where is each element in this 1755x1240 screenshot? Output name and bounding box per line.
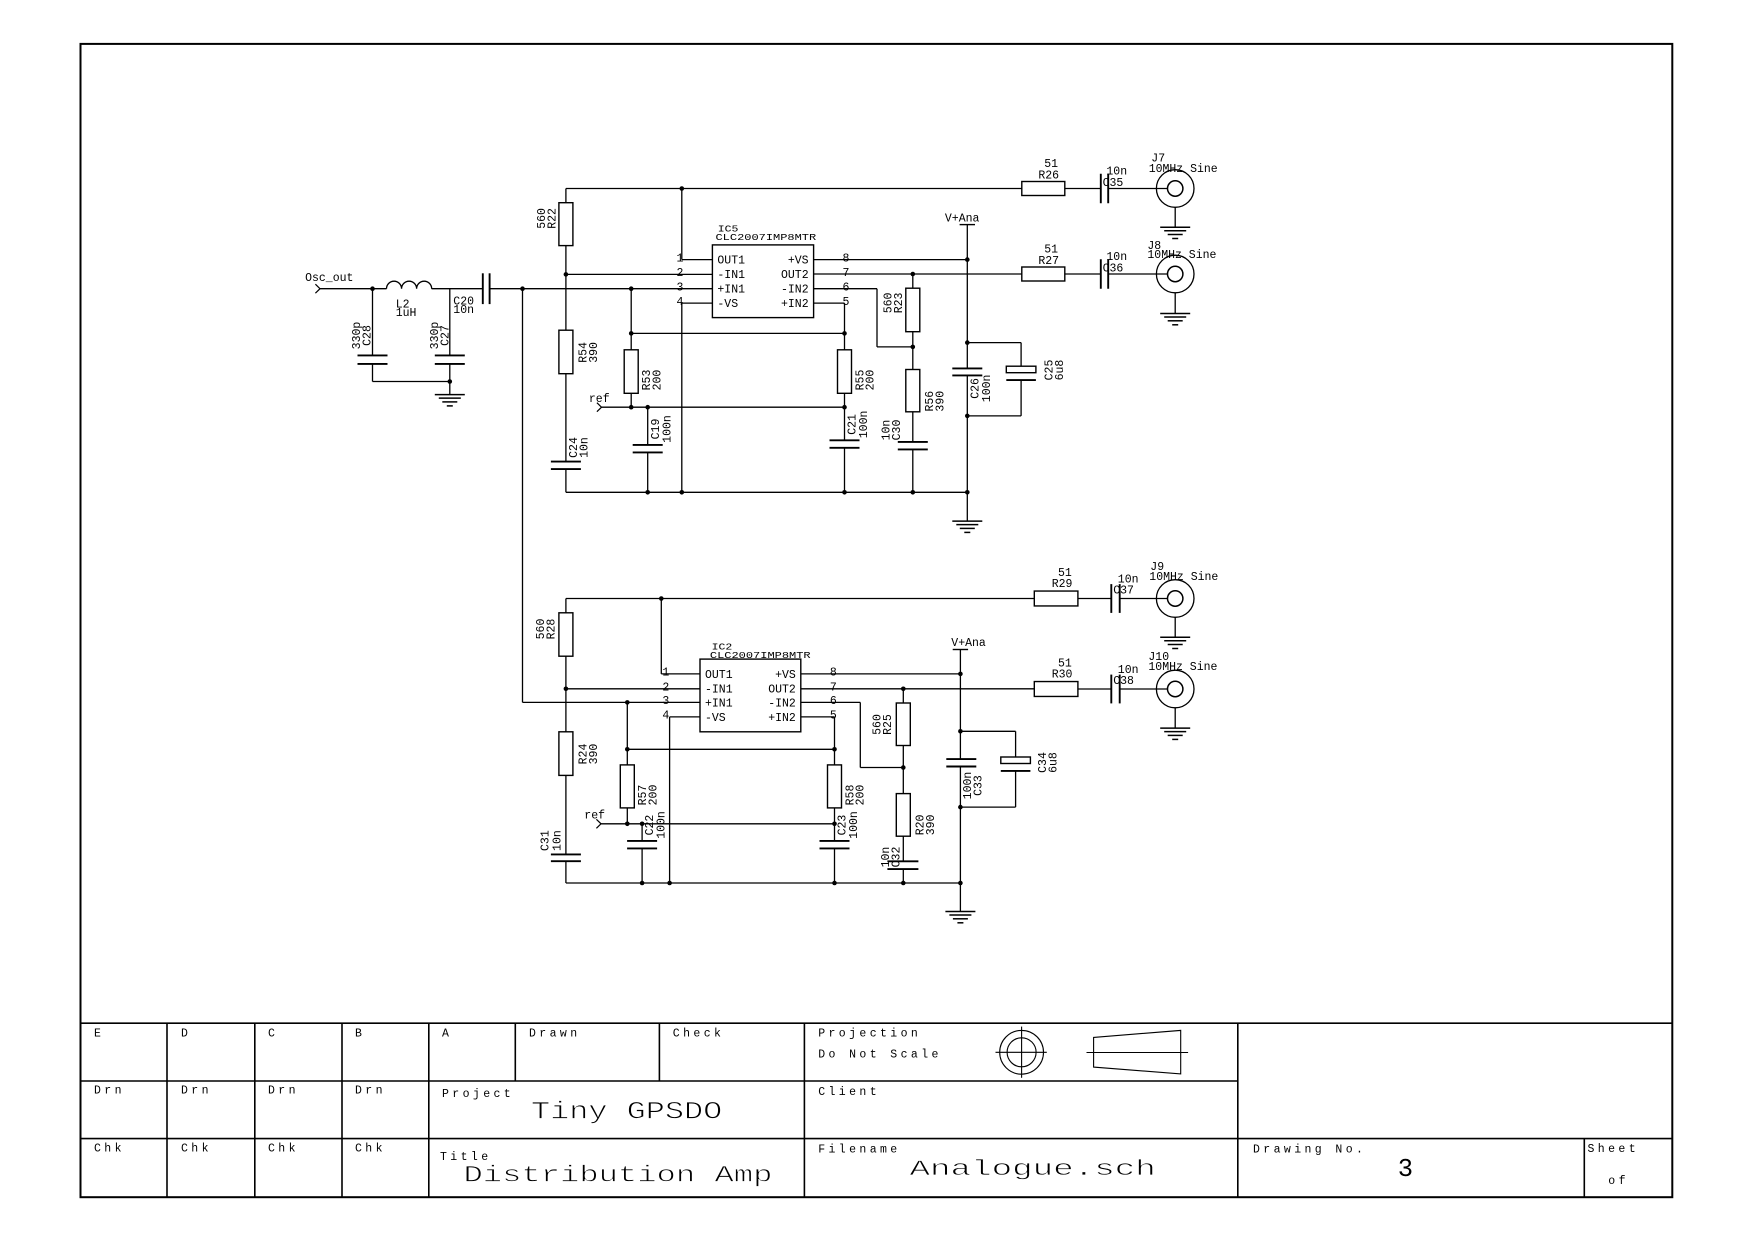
svg-text:OUT1: OUT1 bbox=[705, 669, 733, 682]
svg-text:CLC2007IMP8MTR: CLC2007IMP8MTR bbox=[715, 233, 816, 243]
svg-text:E: E bbox=[94, 1027, 104, 1040]
svg-text:Do Not Scale: Do Not Scale bbox=[818, 1049, 942, 1062]
svg-text:-IN1: -IN1 bbox=[705, 684, 733, 697]
svg-text:Chk: Chk bbox=[355, 1142, 386, 1155]
svg-text:3: 3 bbox=[1398, 1155, 1413, 1184]
svg-text:V+Ana: V+Ana bbox=[951, 637, 986, 650]
svg-text:6u8: 6u8 bbox=[1054, 360, 1067, 381]
svg-text:Drn: Drn bbox=[355, 1084, 386, 1097]
svg-text:C37: C37 bbox=[1113, 585, 1134, 598]
svg-text:7: 7 bbox=[843, 267, 850, 280]
svg-text:8: 8 bbox=[830, 667, 837, 680]
svg-text:100n: 100n bbox=[962, 772, 975, 800]
svg-text:8: 8 bbox=[843, 252, 850, 265]
svg-text:-IN2: -IN2 bbox=[768, 697, 796, 710]
svg-text:1uH: 1uH bbox=[396, 307, 417, 320]
svg-text:200: 200 bbox=[855, 785, 868, 806]
svg-text:7: 7 bbox=[830, 682, 837, 695]
svg-text:200: 200 bbox=[648, 785, 661, 806]
svg-text:3: 3 bbox=[662, 695, 669, 708]
svg-text:Tiny GPSDO: Tiny GPSDO bbox=[531, 1098, 722, 1127]
svg-text:OUT1: OUT1 bbox=[717, 255, 745, 268]
svg-text:Analogue.sch: Analogue.sch bbox=[910, 1156, 1156, 1182]
svg-text:OUT2: OUT2 bbox=[768, 684, 796, 697]
svg-text:D: D bbox=[181, 1027, 191, 1040]
svg-text:R29: R29 bbox=[1052, 578, 1073, 591]
svg-text:+VS: +VS bbox=[788, 255, 809, 268]
svg-text:A: A bbox=[442, 1027, 452, 1040]
svg-text:10n: 10n bbox=[578, 437, 591, 458]
svg-text:Drawing No.: Drawing No. bbox=[1253, 1144, 1366, 1157]
svg-text:-VS: -VS bbox=[705, 712, 726, 725]
svg-text:C: C bbox=[268, 1027, 278, 1040]
svg-text:560: 560 bbox=[872, 714, 885, 735]
svg-text:-IN1: -IN1 bbox=[717, 269, 745, 282]
svg-text:C38: C38 bbox=[1113, 675, 1134, 688]
svg-text:10MHz Sine: 10MHz Sine bbox=[1147, 249, 1216, 262]
svg-text:10MHz Sine: 10MHz Sine bbox=[1149, 163, 1218, 176]
svg-text:Chk: Chk bbox=[268, 1142, 299, 1155]
svg-text:1: 1 bbox=[677, 252, 684, 265]
svg-text:+IN2: +IN2 bbox=[768, 712, 796, 725]
svg-text:2: 2 bbox=[677, 267, 684, 280]
svg-text:100n: 100n bbox=[656, 811, 669, 839]
svg-text:6: 6 bbox=[843, 282, 850, 295]
svg-text:Drn: Drn bbox=[181, 1084, 212, 1097]
svg-text:+VS: +VS bbox=[775, 669, 796, 682]
svg-text:ref: ref bbox=[589, 393, 610, 406]
svg-text:Drn: Drn bbox=[268, 1084, 299, 1097]
svg-text:Check: Check bbox=[673, 1027, 725, 1040]
svg-text:4: 4 bbox=[677, 296, 684, 309]
svg-text:V+Ana: V+Ana bbox=[945, 213, 980, 226]
svg-text:390: 390 bbox=[588, 744, 601, 765]
svg-text:330p: 330p bbox=[429, 322, 442, 350]
svg-text:100n: 100n bbox=[981, 375, 994, 403]
svg-text:B: B bbox=[355, 1027, 365, 1040]
svg-text:10n: 10n bbox=[453, 304, 474, 317]
svg-text:-IN2: -IN2 bbox=[781, 284, 809, 297]
svg-text:10n: 10n bbox=[881, 420, 894, 441]
svg-text:560: 560 bbox=[536, 208, 549, 229]
svg-text:10MHz Sine: 10MHz Sine bbox=[1148, 661, 1217, 674]
svg-text:10n: 10n bbox=[880, 847, 893, 868]
svg-text:2: 2 bbox=[662, 682, 669, 695]
svg-text:CLC2007IMP8MTR: CLC2007IMP8MTR bbox=[710, 651, 811, 661]
svg-text:100n: 100n bbox=[858, 411, 871, 439]
svg-text:Client: Client bbox=[818, 1086, 880, 1099]
svg-text:100n: 100n bbox=[661, 415, 674, 443]
svg-text:560: 560 bbox=[535, 619, 548, 640]
svg-text:5: 5 bbox=[843, 296, 850, 309]
svg-text:Filename: Filename bbox=[818, 1144, 900, 1157]
svg-text:R30: R30 bbox=[1052, 669, 1073, 682]
svg-text:10MHz Sine: 10MHz Sine bbox=[1149, 571, 1218, 584]
svg-text:Drn: Drn bbox=[94, 1084, 125, 1097]
svg-text:Project: Project bbox=[442, 1088, 514, 1101]
svg-text:Chk: Chk bbox=[94, 1142, 125, 1155]
svg-text:Drawn: Drawn bbox=[529, 1027, 581, 1040]
svg-text:R26: R26 bbox=[1038, 170, 1059, 183]
svg-text:Sheet: Sheet bbox=[1588, 1143, 1640, 1156]
svg-text:3: 3 bbox=[677, 282, 684, 295]
svg-text:390: 390 bbox=[588, 342, 601, 363]
svg-text:+IN1: +IN1 bbox=[717, 284, 745, 297]
svg-text:200: 200 bbox=[865, 370, 878, 391]
svg-text:4: 4 bbox=[662, 710, 669, 723]
svg-text:10n: 10n bbox=[551, 830, 564, 851]
svg-text:Chk: Chk bbox=[181, 1142, 212, 1155]
svg-text:Distribution Amp: Distribution Amp bbox=[464, 1163, 773, 1189]
svg-text:390: 390 bbox=[934, 391, 947, 412]
svg-text:330p: 330p bbox=[351, 322, 364, 350]
svg-text:of: of bbox=[1608, 1175, 1629, 1188]
svg-text:OUT2: OUT2 bbox=[781, 269, 809, 282]
svg-text:5: 5 bbox=[830, 710, 837, 723]
svg-text:6u8: 6u8 bbox=[1047, 752, 1060, 773]
svg-text:Osc_out: Osc_out bbox=[305, 272, 353, 285]
svg-text:R27: R27 bbox=[1038, 255, 1059, 268]
svg-text:ref: ref bbox=[584, 810, 605, 823]
svg-text:Projection: Projection bbox=[818, 1027, 921, 1040]
svg-text:560: 560 bbox=[883, 292, 896, 313]
svg-text:-VS: -VS bbox=[717, 298, 738, 311]
svg-text:Title: Title bbox=[440, 1151, 492, 1164]
svg-text:+IN2: +IN2 bbox=[781, 298, 809, 311]
svg-text:100n: 100n bbox=[848, 811, 861, 839]
svg-text:390: 390 bbox=[925, 814, 938, 835]
svg-text:1: 1 bbox=[662, 667, 669, 680]
svg-text:200: 200 bbox=[651, 370, 664, 391]
svg-text:6: 6 bbox=[830, 695, 837, 708]
svg-text:+IN1: +IN1 bbox=[705, 697, 733, 710]
